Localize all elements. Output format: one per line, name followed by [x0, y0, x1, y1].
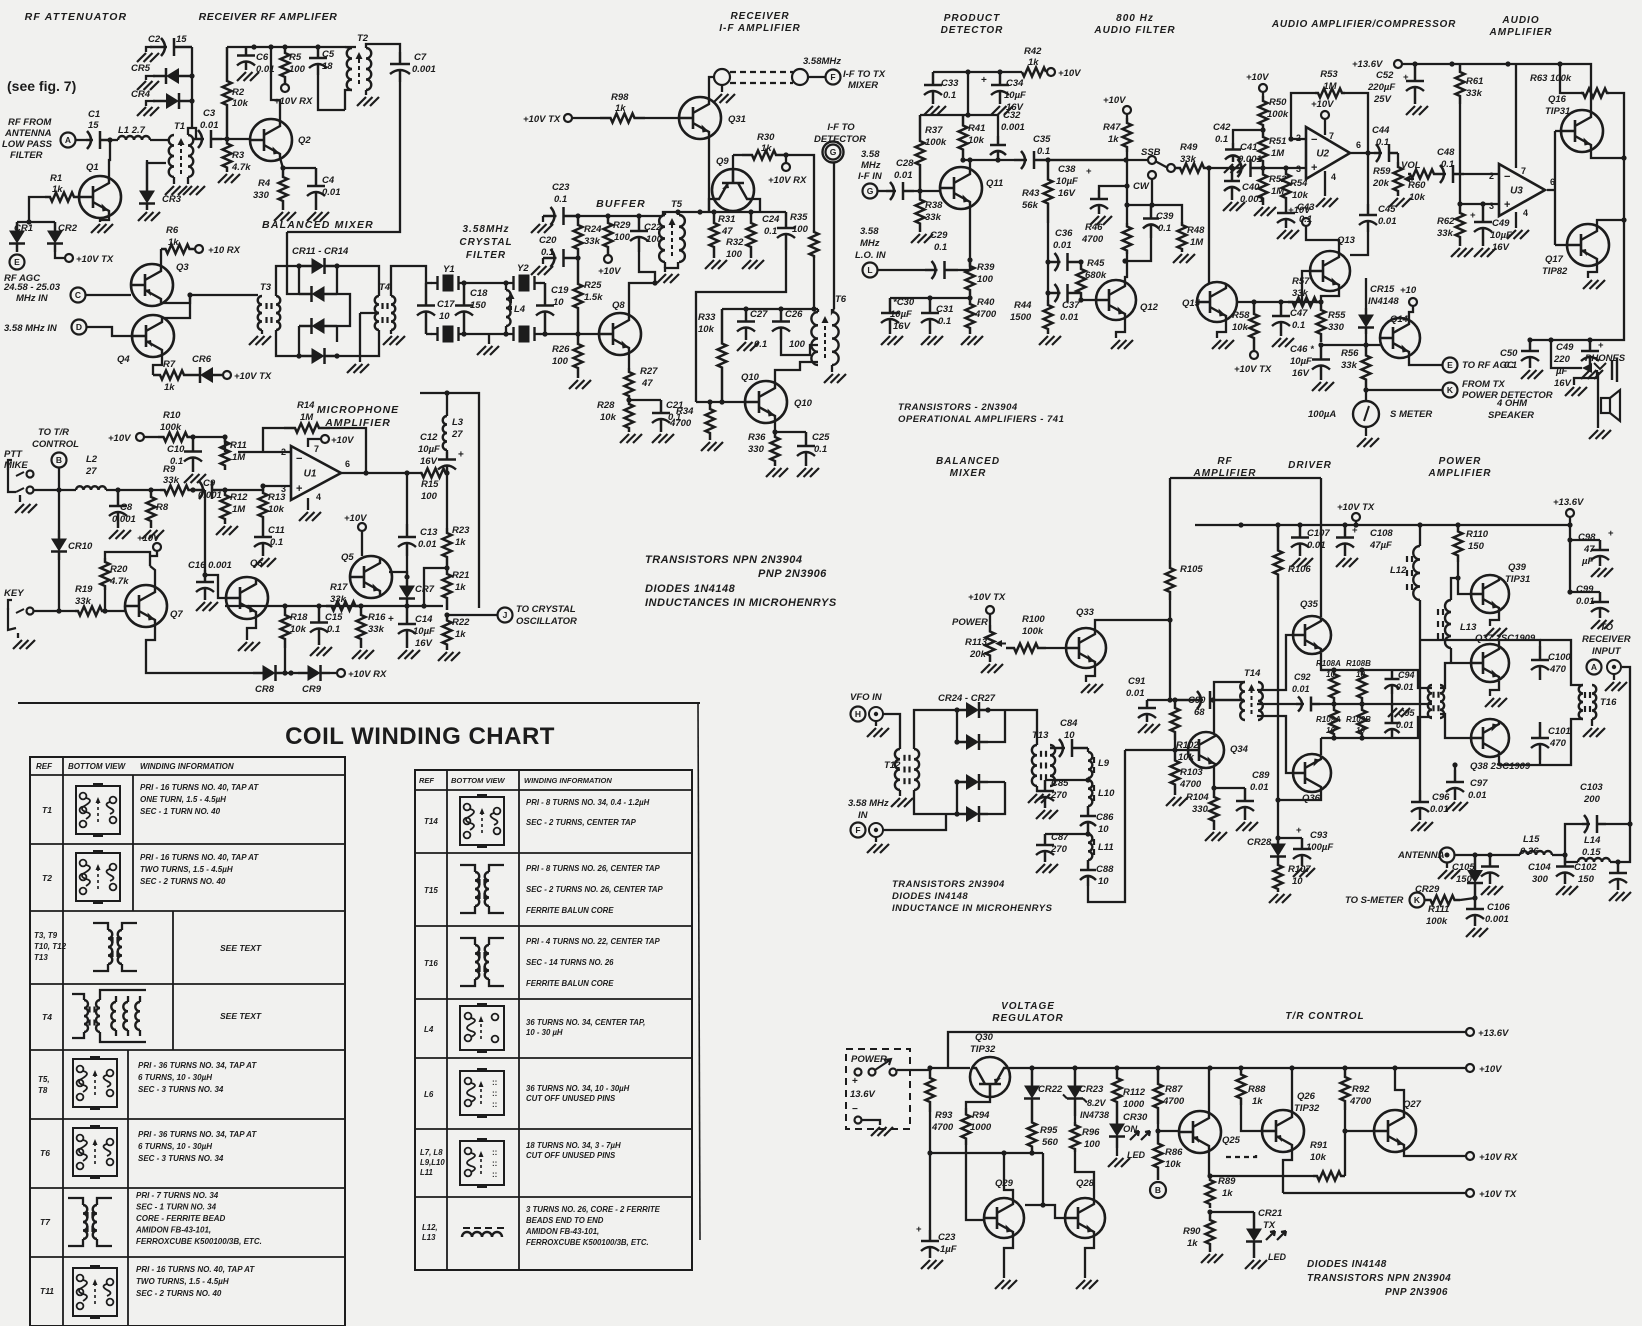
- svg-text:10k: 10k: [698, 324, 715, 335]
- svg-text:T8: T8: [38, 1086, 48, 1095]
- svg-text:R8: R8: [156, 502, 169, 513]
- svg-text:560: 560: [1042, 1137, 1059, 1148]
- svg-text:BUFFER: BUFFER: [596, 198, 646, 210]
- svg-text:T5: T5: [671, 199, 683, 210]
- svg-text:C49: C49: [1556, 342, 1574, 353]
- svg-text:C4: C4: [322, 175, 335, 186]
- svg-text:+: +: [1311, 162, 1317, 174]
- svg-text:R61: R61: [1466, 76, 1483, 87]
- svg-text:C23: C23: [552, 182, 570, 193]
- svg-text:6 TURNS, 10 - 30µH: 6 TURNS, 10 - 30µH: [138, 1142, 212, 1151]
- transistor Q8: [599, 313, 641, 355]
- wire mike to L2, B node: [34, 489, 76, 491]
- svg-text:C37: C37: [1062, 300, 1080, 311]
- transistor Q35: [1293, 616, 1331, 654]
- svg-text:16V: 16V: [420, 456, 438, 467]
- svg-text:10: 10: [1098, 824, 1109, 835]
- terminal +10V (U1 pin7): [308, 439, 320, 447]
- svg-text:C40: C40: [1242, 182, 1260, 193]
- svg-text:BEADS END TO END: BEADS END TO END: [526, 1216, 604, 1225]
- svg-text:C3: C3: [203, 108, 216, 119]
- svg-text:3.58 MHz: 3.58 MHz: [848, 798, 889, 809]
- svg-text:0.01: 0.01: [1468, 790, 1487, 801]
- svg-text:C17: C17: [437, 299, 455, 310]
- wire Q6 collector: [255, 580, 257, 606]
- svg-text:470: 470: [1549, 664, 1567, 675]
- ground under R90: [1201, 1254, 1210, 1263]
- svg-text:470: 470: [1549, 738, 1567, 749]
- svg-text:Q10: Q10: [741, 372, 760, 383]
- ground under Q17 collector: [1588, 263, 1597, 278]
- ground under F jack: [875, 837, 877, 842]
- svg-text:AMPLIFIER: AMPLIFIER: [1428, 468, 1492, 479]
- terminal +10V (R29): [604, 255, 612, 263]
- svg-text:TIP32: TIP32: [970, 1044, 996, 1055]
- svg-text:−: −: [852, 1104, 858, 1115]
- svg-text:E: E: [14, 257, 20, 267]
- svg-text:Y2: Y2: [517, 263, 529, 274]
- op-amp U1: [291, 446, 341, 500]
- wire Q9 collector down to R31 rail: [752, 199, 760, 212]
- svg-text:R38: R38: [925, 200, 943, 211]
- wire Q38 base: [1451, 715, 1471, 738]
- svg-text:+10V: +10V: [331, 435, 354, 446]
- svg-text:R6: R6: [166, 225, 179, 236]
- speaker: [1596, 378, 1598, 428]
- ground under Q12 emitter: [1116, 318, 1125, 338]
- svg-text:7: 7: [1521, 166, 1526, 176]
- wire Q5 emitter down to rail: [371, 595, 380, 606]
- terminal D: [72, 320, 87, 335]
- svg-text:R108A: R108A: [1316, 659, 1341, 668]
- wire Q37 emitter down: [1490, 681, 1499, 696]
- wire Q1 collector to C1/L1 node: [109, 140, 110, 180]
- svg-text:Q1: Q1: [86, 162, 99, 173]
- svg-text:CR22: CR22: [1038, 1084, 1063, 1095]
- svg-text:0.1: 0.1: [764, 226, 777, 237]
- svg-text:L4: L4: [424, 1025, 434, 1034]
- ground under C43: [1277, 230, 1286, 239]
- svg-text:2: 2: [1489, 171, 1494, 181]
- svg-text:C91: C91: [1128, 676, 1145, 687]
- wire D to Q4 base: [87, 327, 132, 336]
- svg-text:POWER: POWER: [1439, 456, 1482, 467]
- svg-text:C11: C11: [268, 525, 285, 536]
- svg-text:CR28: CR28: [1247, 837, 1272, 848]
- node R89/R90/CR21: [1207, 1209, 1212, 1214]
- wire U3 output to Q16/Q17 bases: [1547, 189, 1555, 191]
- svg-text:S METER: S METER: [1390, 409, 1432, 420]
- svg-text:3.58MHz: 3.58MHz: [462, 224, 509, 235]
- svg-text:C98: C98: [1578, 532, 1596, 543]
- svg-text:R16: R16: [368, 612, 386, 623]
- ground under CR3: [138, 212, 147, 221]
- svg-text:100k: 100k: [1267, 109, 1289, 120]
- svg-text:(see fig. 7): (see fig. 7): [7, 78, 76, 94]
- svg-text:TRANSISTORS - 2N3904: TRANSISTORS - 2N3904: [898, 402, 1018, 413]
- svg-text:R30: R30: [757, 132, 775, 143]
- rail +10V TX driver: [1195, 524, 1572, 526]
- svg-text:T3: T3: [260, 282, 272, 293]
- ground under C87: [1036, 864, 1045, 873]
- wire R23/R21 node to C14 rail: [424, 568, 447, 606]
- svg-text:TO CRYSTAL: TO CRYSTAL: [516, 604, 576, 615]
- svg-text:+10V TX: +10V TX: [76, 254, 114, 265]
- transistor Q25 (PNP): [1179, 1111, 1221, 1153]
- svg-text:330: 330: [1328, 322, 1345, 333]
- wire down to Q15 base: [1208, 168, 1210, 284]
- wire C45 down to Q13 collector: [1350, 232, 1368, 255]
- svg-text:IN4738: IN4738: [1080, 1110, 1109, 1120]
- svg-text:TO S-METER: TO S-METER: [1345, 895, 1404, 906]
- terminal K (S meter): [1410, 893, 1425, 908]
- svg-text:R5: R5: [289, 52, 302, 63]
- ground under T3 primary: [261, 330, 263, 334]
- tx mixer inner connections: [988, 710, 1005, 742]
- terminal +10V (T/R rail): [1466, 1064, 1474, 1072]
- svg-text:R29: R29: [613, 220, 631, 231]
- svg-text:10k: 10k: [1409, 192, 1426, 203]
- wire Q36 emitter up to R109 rail: [1320, 738, 1322, 755]
- svg-text:R56: R56: [1341, 348, 1359, 359]
- svg-text:R22: R22: [452, 617, 470, 628]
- tx mixer ring: [914, 710, 957, 749]
- wire +10V rail (Q27 collector): [1394, 1068, 1396, 1111]
- svg-text:100: 100: [977, 274, 994, 285]
- svg-text:0.01: 0.01: [322, 187, 341, 198]
- svg-text:SEE TEXT: SEE TEXT: [220, 1011, 262, 1021]
- ground under Q15 emitter: [1217, 320, 1226, 338]
- wire R61 down to U3 pin3 node: [1459, 104, 1461, 204]
- terminal E TO RF AGC: [1443, 358, 1458, 373]
- svg-text:R88: R88: [1248, 1084, 1266, 1095]
- wire Q31 emitter down to T5 rail: [708, 136, 710, 212]
- svg-text:R2: R2: [232, 87, 245, 98]
- svg-text:20k: 20k: [969, 649, 987, 660]
- svg-text:INPUT: INPUT: [1592, 646, 1622, 657]
- svg-text:OPERATIONAL AMPLIFIERS - 741: OPERATIONAL AMPLIFIERS - 741: [898, 414, 1064, 425]
- svg-text:1M: 1M: [232, 452, 246, 463]
- svg-text:+: +: [458, 450, 464, 461]
- svg-text:1M: 1M: [300, 412, 314, 423]
- terminal +10V RX (T/R): [1466, 1152, 1474, 1160]
- svg-text:C106: C106: [1487, 902, 1510, 913]
- svg-text:100: 100: [421, 491, 438, 502]
- svg-text:TWO TURNS, 1.5 - 4.5µH: TWO TURNS, 1.5 - 4.5µH: [136, 1277, 229, 1286]
- svg-text:G: G: [830, 147, 837, 157]
- audio output network C50 C49: [1530, 272, 1624, 340]
- svg-text:FROM TX: FROM TX: [1462, 379, 1505, 390]
- wire mixer feed line across: [420, 393, 479, 608]
- ground U3 pin4: [1515, 212, 1517, 228]
- svg-text:4: 4: [1523, 208, 1528, 218]
- wire Q11 emitter down: [969, 206, 971, 260]
- svg-text:+10V RX: +10V RX: [1479, 1152, 1518, 1163]
- svg-text:C108: C108: [1370, 528, 1393, 539]
- svg-text:L15: L15: [1523, 834, 1540, 845]
- svg-text:POWER: POWER: [952, 617, 988, 628]
- svg-text:+: +: [1296, 825, 1302, 836]
- svg-text:0.1: 0.1: [327, 624, 340, 635]
- svg-text:CUT OFF UNUSED PINS: CUT OFF UNUSED PINS: [526, 1151, 616, 1160]
- svg-text:C10: C10: [167, 444, 185, 455]
- wire Q5 base left: [345, 577, 350, 606]
- svg-text:R34: R34: [676, 406, 694, 417]
- ground under C46: [1312, 382, 1321, 391]
- svg-text:1M: 1M: [1190, 237, 1204, 248]
- svg-text:PRI - 8 TURNS NO. 34, 0.4 -: PRI - 8 TURNS NO. 34, 0.4 - 1.2µH: [526, 798, 650, 807]
- svg-text:CR6: CR6: [192, 354, 212, 365]
- wire R55 node right to CR15/Q14: [1321, 344, 1380, 346]
- svg-text:+10V: +10V: [344, 513, 367, 524]
- svg-text:R36: R36: [748, 432, 766, 443]
- svg-text:C1: C1: [88, 109, 100, 120]
- ground under R44: [1039, 336, 1048, 345]
- svg-text:20k: 20k: [1372, 178, 1390, 189]
- ground under C42: [1224, 164, 1233, 173]
- svg-text:B: B: [1155, 1185, 1161, 1195]
- svg-text:200: 200: [1583, 794, 1601, 805]
- svg-text:0.01: 0.01: [1292, 684, 1310, 694]
- dashed leader Q25: [1226, 1152, 1256, 1157]
- svg-text:+10V: +10V: [1103, 95, 1126, 106]
- svg-text:+: +: [1608, 528, 1614, 539]
- wire R102/Q34 base: [1172, 697, 1177, 702]
- svg-text:SPEAKER: SPEAKER: [1488, 410, 1534, 421]
- svg-text:R87: R87: [1165, 1084, 1183, 1095]
- wire C26 bottom to T6 secondary loop: [781, 340, 818, 355]
- wire CW node: [1127, 204, 1152, 206]
- svg-text:0.01: 0.01: [418, 539, 437, 550]
- svg-text:L13: L13: [1460, 622, 1477, 633]
- ground under R8: [142, 530, 151, 539]
- wire Q8 emitter down to R27: [628, 352, 630, 368]
- svg-text:C12: C12: [420, 432, 438, 443]
- node R10/C10: [190, 434, 195, 439]
- ground under T6: [831, 365, 833, 372]
- svg-text:18 TURNS NO. 34, 3 - 7µH: 18 TURNS NO. 34, 3 - 7µH: [526, 1141, 621, 1150]
- svg-text:MIXER: MIXER: [848, 80, 878, 91]
- svg-text:0.01: 0.01: [1307, 540, 1326, 551]
- node R27/R28/C21: [626, 397, 631, 402]
- wire C3 to Q2 base, R2/R3 node: [222, 138, 250, 140]
- svg-text:CR15: CR15: [1370, 284, 1395, 295]
- horizontal rule chart top edge: [18, 702, 700, 704]
- svg-text:1000: 1000: [1123, 1099, 1145, 1110]
- wire Q12 collector up to R46: [1125, 254, 1127, 283]
- svg-text:0.1: 0.1: [1037, 146, 1050, 157]
- driver center line T14 to T15: [1257, 703, 1296, 705]
- svg-text:L6: L6: [424, 1090, 434, 1099]
- svg-text:RECEIVER: RECEIVER: [730, 11, 789, 22]
- wire Q9 emitter left to T5 rail: [709, 199, 714, 212]
- ground under CR30: [1116, 1148, 1118, 1156]
- wire T4 secondary to crystal filter: [391, 266, 426, 296]
- svg-text:T14: T14: [1244, 668, 1261, 679]
- svg-text:47µF: 47µF: [1369, 540, 1392, 551]
- svg-text:1k: 1k: [164, 382, 175, 393]
- svg-text:R107: R107: [1288, 864, 1311, 875]
- svg-text:0.1: 0.1: [938, 316, 951, 327]
- svg-text:C96: C96: [1432, 792, 1450, 803]
- svg-text:T2: T2: [357, 33, 369, 44]
- svg-text:4 OHM: 4 OHM: [1496, 398, 1528, 409]
- svg-text:R20: R20: [110, 564, 128, 575]
- wire key to R19, CR10 node: [34, 610, 75, 612]
- ground under T2 secondary: [365, 90, 367, 95]
- svg-text:AMIDON FB-43-101,: AMIDON FB-43-101,: [525, 1227, 599, 1236]
- transistor Q13: [1310, 251, 1350, 291]
- ground under R32: [742, 260, 751, 269]
- svg-text:100µF: 100µF: [1306, 842, 1333, 853]
- svg-text:U1: U1: [304, 469, 317, 480]
- terminal +10V (U2 pin7): [1324, 119, 1326, 135]
- wire R88 to Q26 base: [1241, 1105, 1262, 1131]
- wire C to Q3 base: [86, 294, 131, 296]
- wire rail up to T/R control line: [948, 1032, 1466, 1068]
- wire U2 pin2 node: [1291, 138, 1306, 140]
- svg-text:10k: 10k: [1165, 1159, 1182, 1170]
- terminal E RF AGC: [10, 255, 25, 270]
- svg-text:3.58MHz: 3.58MHz: [803, 56, 841, 67]
- svg-text:1k: 1k: [1252, 1096, 1263, 1107]
- svg-text:REF: REF: [36, 762, 53, 771]
- table left coil winding chart frame: [30, 757, 345, 1326]
- transistor Q27: [1374, 1110, 1416, 1152]
- wire R18 bottom to +10V RX rail: [284, 648, 286, 673]
- svg-text:R24: R24: [584, 224, 602, 235]
- svg-text:CONTROL: CONTROL: [32, 439, 79, 450]
- wire Q35 emitter down to R108 rail: [1321, 653, 1334, 670]
- svg-text:1k: 1k: [1222, 1188, 1233, 1199]
- svg-text:6: 6: [1356, 140, 1361, 150]
- svg-text:R53: R53: [1320, 69, 1338, 80]
- ground under C30: [881, 336, 890, 345]
- svg-text:10k: 10k: [968, 135, 985, 146]
- svg-text:C94: C94: [1398, 670, 1415, 680]
- terminal +10V TX (CR6): [223, 371, 231, 379]
- svg-text:+10: +10: [1400, 285, 1417, 296]
- svg-text:R95: R95: [1040, 1125, 1058, 1136]
- svg-text:PNP 2N3906: PNP 2N3906: [758, 568, 827, 580]
- svg-text:1M: 1M: [1271, 148, 1285, 159]
- transistor Q7: [125, 585, 167, 627]
- wire Q37 collector up: [1420, 640, 1499, 646]
- ground under R3: [218, 174, 227, 183]
- diode CR11 (mixer top): [299, 265, 312, 268]
- svg-text:SEC - 3 TURNS NO. 34: SEC - 3 TURNS NO. 34: [138, 1154, 224, 1163]
- svg-text:Q17: Q17: [1545, 254, 1564, 265]
- svg-text:33k: 33k: [1341, 360, 1358, 371]
- ground U1 pin4: [307, 498, 309, 510]
- svg-text:Q3: Q3: [176, 262, 189, 273]
- svg-text:C28: C28: [896, 158, 914, 169]
- svg-text:800 Hz: 800 Hz: [1116, 13, 1154, 24]
- svg-text:L11: L11: [420, 1168, 433, 1177]
- svg-text:C88: C88: [1096, 864, 1114, 875]
- ground under C108: [1336, 558, 1345, 567]
- transistor Q33: [1066, 628, 1106, 668]
- svg-text:0.01: 0.01: [1060, 312, 1079, 323]
- ground under C96: [1411, 822, 1420, 831]
- svg-text:FERROXCUBE K500100/3B, ETC.: FERROXCUBE K500100/3B, ETC.: [526, 1238, 649, 1247]
- wire T2 secondary top to C7: [366, 44, 400, 52]
- svg-text:I-F IN: I-F IN: [858, 171, 883, 182]
- wire R20 top to +10V node: [105, 552, 150, 566]
- svg-text:OSCILLATOR: OSCILLATOR: [516, 616, 577, 627]
- svg-text:R63 100k: R63 100k: [1530, 73, 1572, 84]
- transformer T15 (driver-PA): [1428, 685, 1432, 718]
- svg-text:4700: 4700: [974, 309, 997, 320]
- node C86/C87/L11: [1085, 831, 1090, 836]
- svg-text:R60: R60: [1408, 180, 1426, 191]
- svg-text:33k: 33k: [1466, 88, 1483, 99]
- svg-text:0.001: 0.001: [1001, 122, 1025, 133]
- svg-text:MICROPHONE: MICROPHONE: [317, 404, 399, 416]
- svg-text:A: A: [65, 135, 71, 145]
- wire Q2 collector to top rail: [271, 47, 280, 122]
- svg-text:16V: 16V: [1058, 188, 1076, 199]
- svg-text:PRI - 36 TURNS NO. 34, TAP A: PRI - 36 TURNS NO. 34, TAP AT: [138, 1130, 257, 1139]
- svg-text:−: −: [1311, 134, 1317, 146]
- wire power to regulator rail: [897, 1068, 970, 1070]
- svg-text:R93: R93: [935, 1110, 953, 1121]
- wire Q28 emitter to ground: [1085, 1235, 1094, 1278]
- wire R41 bottom to Q11 collector/C35: [960, 157, 965, 162]
- ground under key jack: [17, 633, 19, 638]
- svg-text:24.58 - 25.03: 24.58 - 25.03: [3, 282, 61, 293]
- svg-text:C86: C86: [1096, 812, 1114, 823]
- svg-text:R98: R98: [611, 92, 629, 103]
- wire C48 to U3 pin2: [1464, 173, 1499, 175]
- ground under T13: [1036, 786, 1038, 792]
- svg-text:MHz: MHz: [861, 160, 881, 171]
- svg-text:L10: L10: [1098, 788, 1115, 799]
- svg-text:Q25: Q25: [1222, 1135, 1241, 1146]
- svg-text:::: ::: [492, 1078, 497, 1087]
- svg-text:PRODUCT: PRODUCT: [944, 13, 1000, 24]
- svg-text:B: B: [56, 455, 62, 465]
- svg-text:47: 47: [721, 226, 733, 237]
- svg-text:R94: R94: [972, 1110, 990, 1121]
- svg-text:C2: C2: [148, 34, 161, 45]
- svg-text:L: L: [867, 265, 872, 275]
- svg-text:I-F TO TX: I-F TO TX: [843, 69, 886, 80]
- svg-text:C35: C35: [1033, 134, 1051, 145]
- svg-text:+10V TX: +10V TX: [1479, 1189, 1517, 1200]
- ground under R34: [701, 442, 710, 451]
- wire C37/R45 to Q12 base: [1081, 299, 1096, 301]
- wire R100 to Q33 base: [1046, 647, 1065, 649]
- svg-text:*C30: *C30: [893, 297, 915, 308]
- wire T2 primary bottom to C5 node: [345, 90, 352, 110]
- svg-text:R39: R39: [977, 262, 995, 273]
- ground under C10: [184, 474, 193, 483]
- svg-text:R62: R62: [1437, 216, 1455, 227]
- svg-text:Q39: Q39: [1508, 562, 1527, 573]
- svg-text:6: 6: [345, 459, 350, 469]
- ground under Q33 emitter: [1086, 666, 1095, 682]
- svg-text:DIODES 1N4148: DIODES 1N4148: [645, 583, 736, 595]
- op-amp U2: [1306, 127, 1350, 179]
- svg-text:0.1: 0.1: [814, 444, 827, 455]
- transistor Q3 (PNP): [131, 264, 173, 306]
- svg-text:0.1: 0.1: [1215, 134, 1228, 145]
- svg-text:R44: R44: [1014, 300, 1032, 311]
- svg-text:MHz IN: MHz IN: [16, 293, 49, 304]
- svg-text:10 - 30 µH: 10 - 30 µH: [526, 1028, 563, 1037]
- svg-text:0.001: 0.001: [412, 64, 436, 75]
